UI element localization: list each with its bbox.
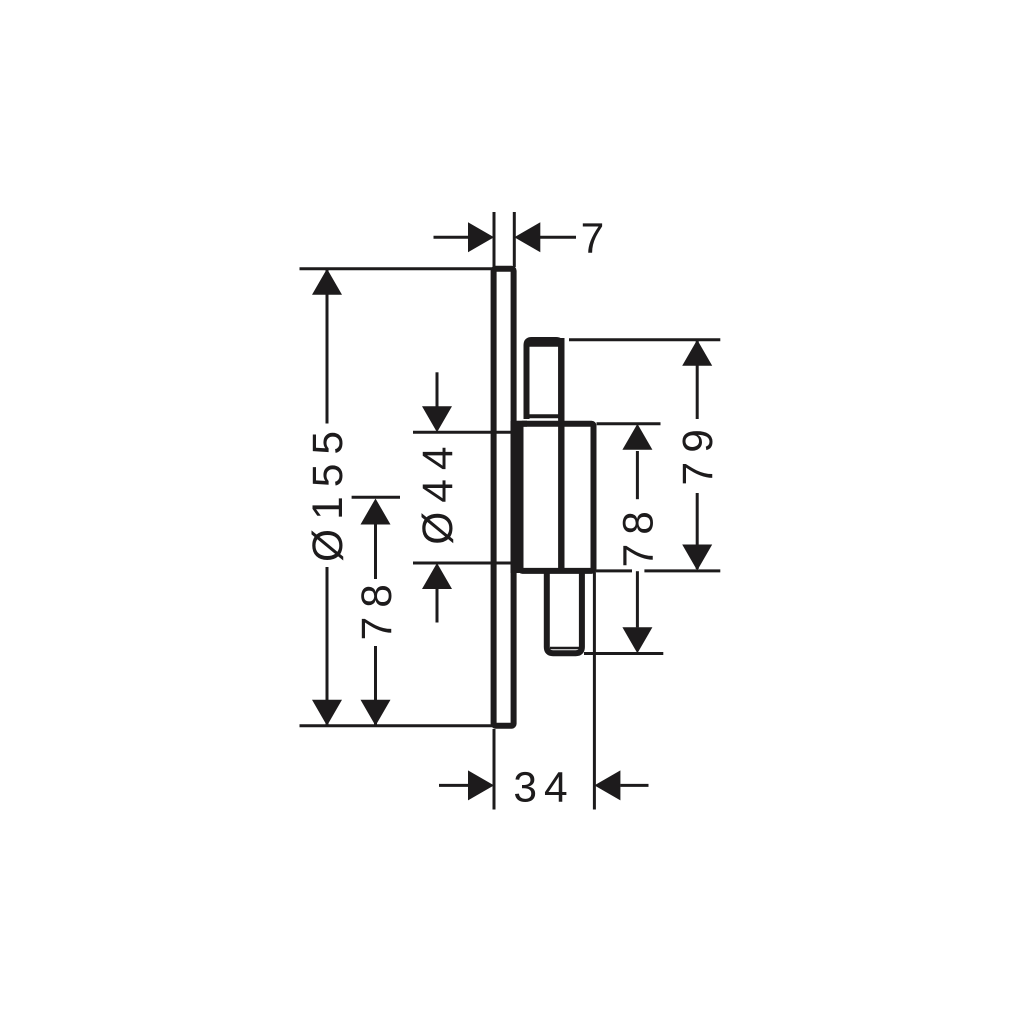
dimension 78 left: dimension line with arrows: [361, 499, 391, 726]
svg-text:7: 7: [581, 216, 612, 263]
body/handle shared vertical edge: [558, 338, 564, 568]
dimension 78 left: center tick: [352, 496, 400, 499]
dimension 34: left extension line: [493, 729, 496, 810]
dimension 79: top extension line: [569, 338, 720, 341]
dimension D44: top arrow (pointing down): [422, 372, 452, 432]
escutcheon plate (side view): [494, 269, 514, 726]
dimension D44 (cartridge diameter): top extension line: [413, 431, 511, 434]
dimension D155 (plate diameter): top extension line: [300, 267, 493, 270]
dimension 34: right extension line: [593, 571, 596, 810]
svg-text:Ø155: Ø155: [305, 422, 352, 562]
dimension 7: left arrow: [434, 222, 495, 252]
upper handle body: [525, 340, 562, 419]
dimension 34: right arrow: [594, 770, 648, 800]
dimension D44: bottom arrow (pointing up): [422, 563, 452, 623]
dimension 78 right: top extension line: [597, 422, 661, 425]
dimension 79: bottom extension line: [596, 569, 720, 572]
dimension 7 (plate thickness): left extension line: [493, 212, 496, 267]
dimension 7: right extension line: [513, 212, 516, 267]
svg-text:Ø44: Ø44: [415, 437, 462, 544]
dimension D44: bottom extension line: [413, 562, 511, 565]
dimension 7: right arrow: [514, 222, 576, 252]
dimension 78 right: dimension line with arrows: [622, 424, 652, 654]
dimension D155: dimension line with arrows: [312, 269, 342, 726]
body-to-plate junction bar: [511, 421, 524, 573]
svg-text:78: 78: [615, 502, 662, 567]
svg-text:34: 34: [513, 765, 574, 812]
dimension 79: dimension line with arrows: [682, 340, 712, 571]
lower handle body: [547, 570, 582, 653]
svg-text:78: 78: [354, 575, 401, 640]
dimension 34: left arrow: [439, 770, 494, 800]
dimension D155: bottom extension line: [300, 724, 493, 727]
main valve body: [521, 424, 594, 571]
svg-text:79: 79: [675, 420, 722, 485]
dimension 78 right: bottom extension line: [584, 652, 663, 655]
